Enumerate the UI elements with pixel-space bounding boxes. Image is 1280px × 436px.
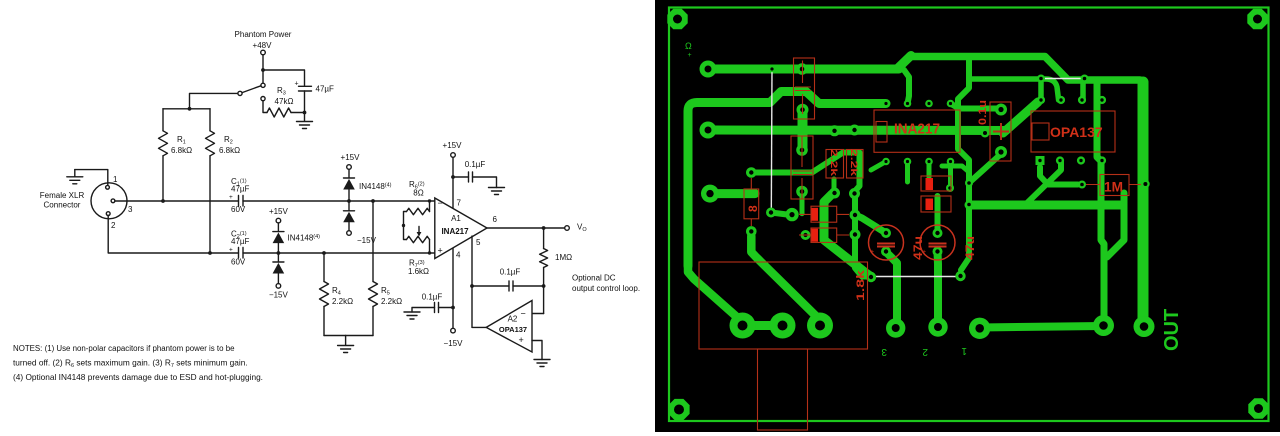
svg-text:2.2k: 2.2k bbox=[848, 149, 859, 177]
svg-text:R1: R1 bbox=[177, 135, 186, 146]
wire phantom vertical bbox=[262, 55, 264, 83]
trace bottom out bbox=[980, 326, 1104, 328]
svg-text:6.8kΩ: 6.8kΩ bbox=[171, 146, 192, 155]
trace cap2 up bbox=[935, 196, 941, 233]
silk cap box 1 bbox=[794, 58, 815, 119]
svg-text:+48V: +48V bbox=[253, 41, 273, 50]
wire lower rail to INA bbox=[243, 252, 435, 254]
pad 1M right on V2 bbox=[1141, 180, 1150, 189]
capacitor C2 47uF bbox=[239, 248, 244, 259]
silk connector outline bbox=[699, 262, 868, 349]
silk 0.1u box right bbox=[990, 102, 1011, 161]
trace pad3 stub bbox=[711, 189, 755, 198]
resistor 1M bbox=[543, 228, 545, 249]
svg-text:1MΩ: 1MΩ bbox=[555, 253, 572, 262]
svg-text:+: + bbox=[295, 81, 299, 88]
corner pad BR bbox=[1248, 398, 1268, 418]
svg-text:INA217: INA217 bbox=[894, 122, 940, 138]
svg-text:R5: R5 bbox=[381, 286, 390, 297]
silk D2 box bbox=[799, 228, 849, 242]
corner pad TL bbox=[667, 9, 687, 29]
trace 0.1u bottom to via bbox=[971, 154, 1001, 181]
pad D2 right bbox=[850, 229, 861, 240]
svg-text:60V: 60V bbox=[231, 205, 246, 214]
pads 2.2k resistors bbox=[829, 125, 840, 136]
feedback cap 0.1uF bbox=[513, 285, 544, 287]
board outline bbox=[669, 8, 1269, 422]
trace left net to INA pad row bbox=[688, 92, 886, 267]
trace lower jumper row bbox=[771, 213, 787, 215]
trace diode stubs bbox=[908, 162, 951, 189]
svg-text:5: 5 bbox=[476, 238, 481, 247]
trace capbox column stubs bbox=[798, 110, 808, 150]
resistor R2 6.8k bbox=[209, 109, 211, 131]
svg-text:47µF: 47µF bbox=[231, 237, 250, 246]
svg-text:Phantom Power: Phantom Power bbox=[235, 30, 292, 39]
trace vertical Vb to OUT pad bbox=[1097, 82, 1104, 322]
switch S1 bbox=[261, 83, 265, 87]
pad P1 bbox=[700, 61, 717, 78]
svg-text:4: 4 bbox=[456, 251, 461, 260]
svg-text:2: 2 bbox=[111, 221, 116, 230]
trace mid-right horizontal bbox=[969, 201, 1120, 210]
silk INA217 bbox=[874, 110, 960, 152]
svg-text:−15V: −15V bbox=[269, 291, 289, 300]
svg-text:6: 6 bbox=[493, 215, 498, 224]
svg-text:−15V: −15V bbox=[444, 339, 464, 348]
wire R4-R5 bottom bbox=[324, 335, 373, 337]
trace mid long bbox=[711, 126, 1006, 136]
wire A2 output to pin5 bbox=[472, 326, 486, 328]
pad R8 bottom / d1 top bbox=[746, 226, 757, 237]
svg-text:+: + bbox=[229, 194, 233, 201]
pin 4 bbox=[452, 248, 454, 328]
silk cap box 2 bbox=[791, 136, 813, 199]
svg-text:0.1µF: 0.1µF bbox=[465, 160, 486, 169]
wire switch lower pole bbox=[263, 101, 267, 113]
connector pads bbox=[730, 313, 756, 339]
trace vertical V2 bbox=[1138, 82, 1149, 322]
svg-text:1.8k: 1.8k bbox=[855, 269, 867, 301]
OPA137 pads top bbox=[1037, 96, 1045, 104]
pot wiper arrow bbox=[402, 224, 405, 227]
phantom power terminal bbox=[261, 50, 266, 55]
svg-text:3: 3 bbox=[128, 205, 133, 214]
svg-text:1: 1 bbox=[961, 345, 967, 356]
svg-text:1: 1 bbox=[113, 175, 118, 184]
svg-text:A2: A2 bbox=[508, 315, 518, 324]
pad capbox1 bottom bbox=[797, 104, 809, 116]
svg-text:2.2kΩ: 2.2kΩ bbox=[332, 297, 353, 306]
svg-text:+15V: +15V bbox=[341, 153, 361, 162]
silk 1M bbox=[1086, 175, 1141, 196]
trace opa to 1M bbox=[1040, 167, 1078, 185]
node R1/R2 top bbox=[188, 107, 192, 111]
svg-text:0.1µF: 0.1µF bbox=[422, 293, 443, 302]
trace ina pin5 diag bbox=[871, 162, 886, 171]
svg-text:turned off. (2) R6 sets maximu: turned off. (2) R6 sets maximum gain. (3… bbox=[13, 358, 248, 370]
trace 2.2k stub bbox=[832, 179, 837, 193]
trace cap1 top feed bbox=[855, 215, 886, 233]
svg-text:OPA137: OPA137 bbox=[1050, 124, 1103, 140]
electrolytic cap1 47u bbox=[869, 225, 904, 260]
svg-text:−: − bbox=[438, 198, 443, 208]
svg-text:−: − bbox=[521, 309, 526, 319]
svg-text:47µF: 47µF bbox=[316, 85, 335, 94]
svg-text:8: 8 bbox=[746, 205, 760, 212]
trace left pad1 bbox=[711, 65, 899, 74]
white jumper W3 bbox=[1042, 78, 1083, 80]
pin 7 bbox=[452, 177, 454, 208]
svg-text:+: + bbox=[229, 247, 233, 254]
pad D2 left bbox=[801, 230, 811, 240]
pad capbox2 top bbox=[796, 144, 808, 156]
silk D1 box bbox=[799, 206, 849, 222]
pads out row bbox=[1093, 315, 1114, 336]
svg-text:Female XLR: Female XLR bbox=[40, 191, 85, 200]
pad diode right bbox=[946, 184, 954, 192]
trace diag d1 bbox=[751, 236, 820, 320]
white jumper W1 bbox=[770, 69, 773, 212]
trace diode row to via bbox=[942, 166, 969, 172]
diode clamp D2 -15V bbox=[344, 210, 355, 212]
wire R1-R2 top bar bbox=[163, 108, 210, 110]
silk 2.2k box B bbox=[847, 150, 864, 179]
svg-text:47µF: 47µF bbox=[231, 185, 250, 194]
node R1-rail bbox=[161, 199, 165, 203]
ground at XLR pin1 bbox=[67, 170, 83, 184]
svg-text:0.1u: 0.1u bbox=[977, 100, 989, 125]
corner pad BL bbox=[668, 399, 689, 420]
bypass cap 0.1uF A1 bottom bbox=[439, 307, 454, 309]
gain network R6 8ohm bbox=[428, 199, 431, 202]
pin 6 output bbox=[487, 227, 565, 229]
svg-text:VO: VO bbox=[577, 223, 587, 234]
pad P3 bbox=[701, 185, 719, 203]
resistor R3 47k bbox=[267, 108, 291, 117]
trace cap1 to pad3 bbox=[886, 252, 897, 320]
svg-text:1.6kΩ: 1.6kΩ bbox=[408, 267, 429, 276]
capacitor C1 47uF bbox=[239, 196, 244, 207]
pad D1 right bbox=[850, 210, 861, 221]
svg-text:1M: 1M bbox=[1104, 180, 1123, 195]
wire pin2 lower rail bbox=[108, 216, 238, 254]
svg-text:IN4148(4): IN4148(4) bbox=[359, 182, 392, 191]
resistor R4 2.2k bbox=[322, 251, 326, 255]
pad W1 link big bbox=[785, 208, 798, 221]
white jumper W2 bbox=[872, 276, 959, 278]
svg-text:+: + bbox=[519, 335, 524, 345]
svg-text:INA217: INA217 bbox=[441, 227, 469, 236]
corner pad TR bbox=[1247, 9, 1267, 29]
pad R8 top bbox=[746, 167, 757, 178]
svg-text:2: 2 bbox=[922, 346, 928, 357]
svg-text:47kΩ: 47kΩ bbox=[275, 97, 294, 106]
pad mid trace end bbox=[981, 129, 990, 138]
svg-text:47u: 47u bbox=[963, 236, 977, 260]
svg-text:0.1µF: 0.1µF bbox=[500, 268, 521, 277]
silk OPA137 bbox=[1031, 111, 1115, 152]
bypass cap 0.1uF A1 top bbox=[453, 176, 469, 178]
ground below Cp bbox=[297, 113, 313, 129]
svg-text:+: + bbox=[438, 246, 443, 256]
svg-text:8Ω: 8Ω bbox=[413, 189, 423, 198]
trace T1 to pad2 bbox=[904, 70, 909, 104]
INA217 pads top bbox=[882, 100, 890, 108]
svg-text:7: 7 bbox=[457, 199, 462, 208]
svg-text:3: 3 bbox=[881, 346, 887, 357]
gain network R7 1.6k bbox=[407, 236, 430, 242]
silk D3 box bbox=[921, 196, 951, 212]
svg-text:+: + bbox=[870, 249, 874, 256]
wire ground to pin1 bbox=[75, 170, 108, 186]
pad T9 left bbox=[965, 201, 973, 209]
svg-text:+: + bbox=[688, 52, 692, 59]
svg-text:R3: R3 bbox=[277, 86, 286, 97]
svg-text:A1: A1 bbox=[451, 214, 461, 223]
node R2-rail bbox=[208, 251, 212, 255]
capacitor Cp 47uF bbox=[299, 86, 312, 91]
wire A2 + to ground bbox=[532, 341, 542, 360]
trace mid to OPA diag bbox=[1003, 102, 1038, 133]
electrolytic cap2 47u bbox=[920, 225, 955, 260]
silk 2.2k box A bbox=[826, 150, 844, 179]
resistor R1 6.8k bbox=[162, 109, 164, 131]
svg-text:60V: 60V bbox=[231, 258, 246, 267]
svg-text:OPA137: OPA137 bbox=[499, 325, 527, 334]
wire upper rail to INA bbox=[243, 200, 435, 202]
resistor R5 2.2k bbox=[371, 199, 375, 203]
wire pin3 upper rail bbox=[115, 200, 239, 202]
svg-text:2.2k: 2.2k bbox=[828, 149, 839, 177]
trace jumper2 right riser bbox=[958, 60, 969, 270]
svg-text:+15V: +15V bbox=[443, 141, 463, 150]
svg-text:6.8kΩ: 6.8kΩ bbox=[219, 146, 240, 155]
svg-text:Connector: Connector bbox=[44, 201, 81, 210]
trace V+ top long bbox=[897, 56, 911, 70]
svg-text:R2: R2 bbox=[224, 135, 233, 146]
wire switch to R1/R2 bbox=[190, 93, 238, 108]
trace diag capbox2 net bbox=[751, 153, 871, 277]
trace net1 to OPA pad2 bbox=[969, 79, 1083, 100]
wire to cap Cp bbox=[263, 70, 305, 86]
pad 1M left bbox=[1078, 181, 1086, 189]
trace opa pin to T9 bbox=[1026, 161, 1061, 204]
pad capbox2 bottom bbox=[796, 186, 808, 198]
wire cap to R3 node bbox=[304, 91, 306, 113]
svg-text:output control loop.: output control loop. bbox=[572, 284, 640, 293]
ground below R4/R5 bbox=[338, 336, 354, 353]
svg-text:NOTES: (1) Use non-polar capac: NOTES: (1) Use non-polar capacitors if p… bbox=[13, 344, 235, 353]
svg-text:Optional DC: Optional DC bbox=[572, 274, 616, 283]
svg-text:47u: 47u bbox=[911, 236, 925, 260]
node cap/R3/ground bbox=[303, 111, 307, 115]
svg-text:2.2kΩ: 2.2kΩ bbox=[381, 297, 402, 306]
svg-text:OUT: OUT bbox=[1161, 309, 1183, 351]
silk R8 box bbox=[744, 189, 759, 219]
trace INA pin to 0.1u bbox=[951, 104, 1002, 110]
node phantom junction bbox=[261, 68, 265, 72]
diode clamp D4 -15V bbox=[273, 261, 284, 263]
svg-text:R4: R4 bbox=[332, 286, 341, 297]
svg-text:(4) Optional IN4148 prevents d: (4) Optional IN4148 prevents damage due … bbox=[13, 372, 263, 382]
OPA137 pads bottom bbox=[1036, 156, 1045, 165]
INA217 pads bottom bbox=[882, 158, 890, 166]
trace connector pads link bbox=[743, 321, 783, 330]
svg-text:+15V: +15V bbox=[269, 207, 289, 216]
op-amp A1 INA217 bbox=[435, 198, 487, 259]
bottom pads 3 2 1 bbox=[886, 318, 905, 337]
trace cap2 down to pad2 bbox=[934, 252, 943, 320]
XLR connector body bbox=[91, 183, 127, 219]
pin 5 bbox=[471, 236, 473, 327]
op-amp A2 OPA137 bbox=[532, 313, 544, 315]
wire R3 to cap bottom bbox=[291, 112, 305, 114]
pad P2 bbox=[700, 122, 717, 139]
silk D2 box bbox=[921, 176, 951, 191]
svg-text:Ω: Ω bbox=[685, 41, 692, 51]
svg-text:IN4148(4): IN4148(4) bbox=[288, 234, 321, 243]
pad capbox1 top bbox=[796, 63, 808, 75]
trace between D boxes bbox=[824, 194, 871, 277]
